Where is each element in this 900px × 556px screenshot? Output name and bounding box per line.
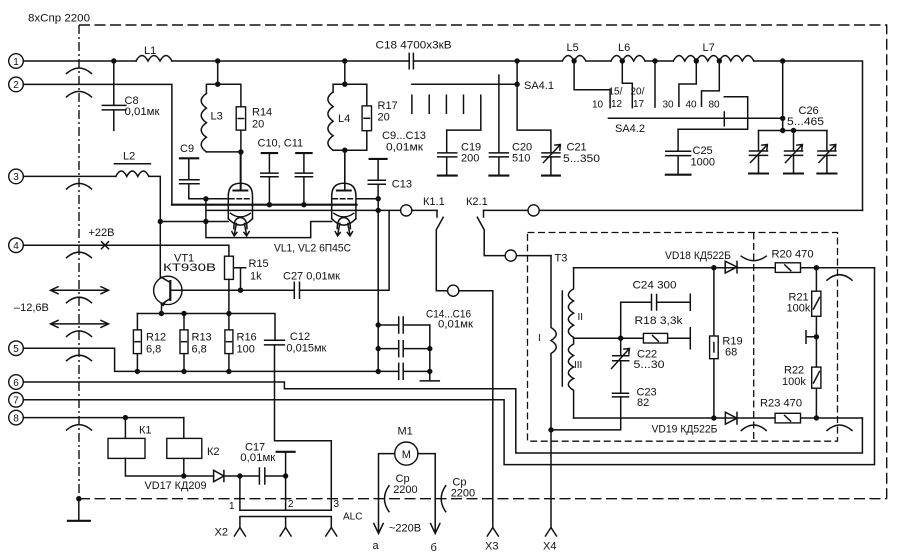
grid1 bus VL1 xyxy=(206,198,228,200)
svg-text:1k: 1k xyxy=(250,271,262,283)
svg-text:L2: L2 xyxy=(123,151,135,163)
node L4 bottom / VL2 anode xyxy=(342,148,347,153)
svg-text:6,8: 6,8 xyxy=(192,344,207,356)
inductor L5 xyxy=(562,42,586,61)
svg-text:10: 10 xyxy=(592,100,604,111)
node R19 bottom xyxy=(711,415,716,420)
terminal 1 xyxy=(9,54,24,69)
svg-text:0,015мк: 0,015мк xyxy=(286,343,326,355)
break mark on +22V wire xyxy=(102,242,109,249)
svg-text:КТ930В: КТ930В xyxy=(163,262,216,274)
feedthrough arc bottom rail at box edge xyxy=(827,425,852,431)
resistor R17 20 xyxy=(362,100,398,131)
transformer T3 secondary II xyxy=(568,268,583,339)
coax bushing on antenna line xyxy=(401,205,412,216)
wire L5 to L6 xyxy=(586,60,611,62)
capacitor C25 1000 xyxy=(666,129,715,174)
node L4 parallel top xyxy=(342,82,347,87)
inductor L4 xyxy=(328,92,333,150)
node R13 bottom xyxy=(181,369,186,374)
svg-text:R16: R16 xyxy=(237,332,257,344)
node K1 coil top xyxy=(123,415,128,420)
svg-text:100k: 100k xyxy=(782,376,806,388)
terminal 3 xyxy=(9,169,24,184)
feedthrough cap arc on heater line 1 xyxy=(67,297,92,303)
svg-text:VL1, VL2 6П45С: VL1, VL2 6П45С xyxy=(274,243,351,255)
svg-text:L7: L7 xyxy=(703,42,715,54)
switch SA4.2 line xyxy=(608,118,782,135)
chassis stub at divider xyxy=(806,331,816,344)
node C11 on screen bus xyxy=(301,202,306,207)
variable capacitor C26b xyxy=(784,131,803,174)
node X2 pin1 xyxy=(237,473,242,478)
variable capacitor C26c xyxy=(817,131,836,174)
svg-text:4: 4 xyxy=(13,241,19,252)
feedthrough cap arc on wire 8 xyxy=(67,425,92,431)
node SA4.2 at C26 line xyxy=(780,116,785,121)
svg-text:L6: L6 xyxy=(618,42,630,54)
svg-text:I: I xyxy=(538,333,541,344)
feedthrough arc bottom rail at partition xyxy=(741,425,766,431)
inductor L7 xyxy=(673,42,754,61)
svg-text:1000: 1000 xyxy=(691,157,715,169)
svg-text:20/: 20/ xyxy=(631,87,645,98)
node K2 bottom xyxy=(181,473,186,478)
resistor R23 470 xyxy=(760,398,802,423)
node C26 feed xyxy=(780,58,785,63)
return line C23 to X4 node xyxy=(551,397,621,430)
feedthrough cap arc on wire 5 xyxy=(67,355,92,361)
resistor R21 100k xyxy=(787,268,821,337)
connector X4 xyxy=(543,528,557,553)
detector top rail xyxy=(574,267,875,269)
svg-text:20: 20 xyxy=(378,112,390,124)
emitter bus xyxy=(137,314,275,341)
svg-text:R13: R13 xyxy=(192,332,212,344)
node R16 top xyxy=(226,311,231,316)
inductor L3 xyxy=(201,94,206,152)
node C8/top xyxy=(111,58,116,63)
node C15 left xyxy=(376,346,381,351)
wire top rail C18 to L5 xyxy=(413,60,562,62)
ALC sense line C12 to X2 pin3 xyxy=(275,345,332,510)
feedthrough cap arc on wire 1 xyxy=(67,68,92,74)
vacuum tube VL1 6P45S xyxy=(228,152,252,236)
node R16 bottom xyxy=(226,369,231,374)
transistor VT1 xyxy=(154,276,182,313)
svg-text:М: М xyxy=(402,449,411,461)
node R19 top xyxy=(711,265,716,270)
svg-text:68: 68 xyxy=(725,347,737,359)
svg-text:8: 8 xyxy=(13,413,19,424)
svg-text:3: 3 xyxy=(13,172,19,183)
node R20/R21 xyxy=(814,265,819,270)
svg-text:L4: L4 xyxy=(338,113,350,125)
node X2 pin2 xyxy=(283,473,288,478)
capacitor C11 xyxy=(295,153,312,205)
svg-text:12: 12 xyxy=(611,99,623,110)
svg-text:80: 80 xyxy=(709,100,721,111)
svg-text:0,01мк: 0,01мк xyxy=(386,142,423,154)
svg-text:VD18 КД522Б: VD18 КД522Б xyxy=(665,250,731,262)
terminal 4 xyxy=(9,238,24,253)
meter lead b xyxy=(418,454,435,525)
X4 line xyxy=(550,430,552,528)
svg-text:VD19 КД522Б: VD19 КД522Б xyxy=(652,424,718,436)
svg-text:R15: R15 xyxy=(249,258,269,270)
feedthrough cap arc on wire 3 xyxy=(67,183,92,189)
connector X3 xyxy=(485,528,498,553)
svg-text:5: 5 xyxy=(13,344,19,355)
svg-text:0,01мк: 0,01мк xyxy=(240,452,275,464)
svg-text:3: 3 xyxy=(334,499,340,510)
node SA4.1/C21 feed xyxy=(514,58,519,63)
wire K2.1 fixed from tank xyxy=(484,209,863,211)
svg-text:С25: С25 xyxy=(693,145,713,157)
T3 box partition xyxy=(753,233,755,442)
svg-text:С9: С9 xyxy=(180,143,194,155)
svg-text:Х3: Х3 xyxy=(485,541,498,553)
svg-text:7: 7 xyxy=(13,396,19,407)
resistor R19 68 xyxy=(710,268,743,418)
node divider mid xyxy=(814,334,819,339)
svg-text:5...30: 5...30 xyxy=(634,359,665,371)
svg-text:С10, С11: С10, С11 xyxy=(258,138,304,150)
relay coil return line xyxy=(125,458,213,476)
inductor L2 xyxy=(114,151,150,177)
inductor L6 xyxy=(611,42,645,61)
svg-text:III: III xyxy=(574,360,582,371)
wire terminal 2 to screen bus xyxy=(23,84,172,204)
tank L3 with R14: frame xyxy=(206,61,241,152)
detector bottom rail xyxy=(574,417,863,419)
variable capacitor C21 5...350 xyxy=(517,84,600,175)
feedthrough cap arc on heater line 2 xyxy=(67,331,92,337)
svg-text:С9...С13: С9...С13 xyxy=(382,130,426,142)
svg-text:17: 17 xyxy=(633,99,645,110)
capacitor C14 xyxy=(378,317,430,333)
capacitor C17 0,01mk xyxy=(240,442,286,485)
switch contact bar 3 xyxy=(445,95,447,113)
node L3 bottom / VL1 anode xyxy=(238,149,243,154)
resistor R14 20 xyxy=(236,107,272,131)
svg-text:0,01мк: 0,01мк xyxy=(438,319,473,331)
svg-text:С27 0,01мк: С27 0,01мк xyxy=(283,271,340,283)
svg-text:L5: L5 xyxy=(567,42,579,54)
screen grid bus xyxy=(172,204,357,206)
wire 4 +22V xyxy=(23,245,229,256)
chassis bar above X2 pin2 xyxy=(285,452,287,476)
relay contact K1.1 fixed xyxy=(436,210,438,217)
svg-text:510: 510 xyxy=(512,153,530,165)
arrow to b xyxy=(431,524,440,534)
capacitor C16 xyxy=(399,363,430,379)
node cathode/collector xyxy=(158,219,163,224)
wire 8 to relay coils xyxy=(23,417,184,419)
beam plate bus xyxy=(206,209,378,211)
svg-text:2200: 2200 xyxy=(451,488,475,500)
arrow to a xyxy=(374,524,383,534)
tap 20/17 of L6 xyxy=(631,58,658,110)
capacitor C18 4700x3kV xyxy=(376,40,452,69)
svg-text:К1: К1 xyxy=(139,425,152,437)
tap 10 of L5 xyxy=(571,58,610,110)
svg-text:Х4: Х4 xyxy=(543,541,556,553)
meter M1 xyxy=(395,426,418,466)
node beam bus right xyxy=(376,208,381,213)
svg-text:Х2: Х2 xyxy=(215,527,228,539)
feedthrough arc top rail at partition xyxy=(741,256,766,261)
node grid1 VL1 xyxy=(203,196,208,201)
grid1 bus VL2 xyxy=(357,198,379,200)
svg-text:8хСпр 2200: 8хСпр 2200 xyxy=(28,13,90,25)
feedthrough cap Cp 2200 on lead b xyxy=(441,477,475,512)
wire net of terminal 1 (top rail) xyxy=(23,60,136,62)
grid link VL1 xyxy=(205,199,207,222)
capacitor C19 200 xyxy=(438,130,481,176)
svg-text:1: 1 xyxy=(229,501,235,512)
svg-text:К2.1: К2.1 xyxy=(466,196,488,208)
terminal 7 xyxy=(9,393,24,408)
svg-text:Т3: Т3 xyxy=(555,253,568,265)
wiper link to C25 xyxy=(678,97,748,130)
svg-text:R17: R17 xyxy=(378,100,398,112)
relay contact K1.1 arm xyxy=(436,217,493,290)
variable capacitor C22 5...30 xyxy=(612,338,665,393)
tap line with R18 xyxy=(574,328,691,349)
switch contact bar 4 xyxy=(463,95,465,113)
node R13 top xyxy=(181,311,186,316)
node C16 right xyxy=(427,369,432,374)
inductor L1 xyxy=(136,45,172,61)
svg-text:30: 30 xyxy=(663,100,675,111)
capacitor C13 xyxy=(368,159,412,199)
resistor R22 100k xyxy=(782,337,821,418)
svg-text:200: 200 xyxy=(461,153,479,165)
wire 6 to bottom rail return xyxy=(23,382,862,453)
svg-text:40: 40 xyxy=(686,100,698,111)
node R15 tap on base line xyxy=(238,288,243,293)
wire 5 / emitter resistor bus xyxy=(23,348,398,371)
heater line 2 with double arrows xyxy=(51,320,109,327)
R15 lower lead to R16 xyxy=(228,279,230,330)
svg-text:ALC: ALC xyxy=(343,512,362,523)
svg-text:С13: С13 xyxy=(392,179,412,191)
switch contact bar 2 xyxy=(428,95,430,113)
grid net vertical to C14-C16 xyxy=(377,199,379,372)
node C15 right xyxy=(427,346,432,351)
capacitor C9 xyxy=(180,143,206,199)
tap 15/12 of L6 xyxy=(609,58,633,110)
node emitter xyxy=(159,311,164,316)
svg-text:6,8: 6,8 xyxy=(146,344,161,356)
heater line 1 with double arrows xyxy=(51,287,109,294)
svg-text:R12: R12 xyxy=(146,332,166,344)
wire L4 node to VL2 anode xyxy=(344,150,346,190)
variable capacitor C26a xyxy=(749,131,768,174)
connector X2 pin ends xyxy=(234,528,245,537)
C26 feed line xyxy=(759,61,827,131)
node C26 bus xyxy=(780,128,785,133)
svg-text:С21: С21 xyxy=(567,142,587,154)
svg-text:+22В: +22В xyxy=(89,227,115,239)
capacitor C24 300 xyxy=(621,280,691,339)
coax bushing on K2.1 output xyxy=(505,250,516,261)
capacitor C8 0,01mk xyxy=(102,61,159,130)
feedthrough arc top rail at box edge xyxy=(827,275,852,281)
svg-text:6: 6 xyxy=(13,378,19,389)
node L3 parallel top xyxy=(215,82,220,87)
svg-text:R20 470: R20 470 xyxy=(772,249,814,261)
node cathode VL1 xyxy=(203,219,208,224)
SA4.2 wiper bar xyxy=(723,112,725,126)
wire L6 to L7 xyxy=(645,60,673,62)
wire L3 node to VL1 anode xyxy=(240,152,242,191)
node grid rail on bus xyxy=(376,369,381,374)
relay coil K1 xyxy=(108,418,152,459)
node C10 on screen bus xyxy=(267,202,272,207)
transformer T3 core xyxy=(561,291,563,386)
capacitor C27 0,01mk xyxy=(283,271,340,299)
svg-text:~220В: ~220В xyxy=(389,523,421,535)
ground symbol at shield bottom xyxy=(68,496,90,521)
shield enclosure dashed border xyxy=(79,25,887,499)
diode VD18 KD522B xyxy=(665,250,737,273)
diode VD19 KD522B xyxy=(652,412,738,435)
X3 receiver line xyxy=(492,291,494,528)
wire L7 to corner xyxy=(754,61,863,210)
resistor R13 6,8 xyxy=(180,314,212,372)
node R22 bottom xyxy=(814,415,819,420)
svg-text:R22: R22 xyxy=(784,365,804,377)
capacitor C10 xyxy=(261,153,278,205)
terminal 5 xyxy=(9,341,24,356)
svg-text:L1: L1 xyxy=(144,45,156,57)
switch SA4.1 line xyxy=(412,61,517,84)
coax bushing on tank line xyxy=(528,205,539,216)
svg-text:L3: L3 xyxy=(211,111,223,123)
resistor R12 6,8 xyxy=(133,314,166,372)
svg-text:R23 470: R23 470 xyxy=(760,398,802,410)
node C14 left xyxy=(376,322,381,327)
node L4 top feed xyxy=(342,58,347,63)
resistor R15 1k with tap xyxy=(225,256,269,290)
node SA4.1 right xyxy=(514,82,519,87)
svg-text:R18 3,3k: R18 3,3k xyxy=(635,315,684,327)
coax bushing on K1.1 output xyxy=(448,285,459,296)
svg-text:SA4.2: SA4.2 xyxy=(615,123,645,135)
svg-text:VD17 КД209: VD17 КД209 xyxy=(145,480,207,492)
cathode jumper to VL2 xyxy=(206,222,332,238)
svg-text:К1.1: К1.1 xyxy=(423,196,445,208)
terminal 8 xyxy=(9,410,24,425)
transformer T3 primary I xyxy=(538,256,556,430)
feedthrough cap Cp 2200 on lead a xyxy=(385,473,418,512)
node grid1 VL2 xyxy=(376,196,381,201)
svg-text:К2: К2 xyxy=(207,446,220,458)
svg-text:С24 300: С24 300 xyxy=(633,280,677,292)
capacitor C12 0,015mk xyxy=(265,331,327,355)
svg-text:2200: 2200 xyxy=(393,484,417,496)
feedthrough cap arc on wire 2 xyxy=(67,91,92,97)
svg-text:1: 1 xyxy=(13,57,19,68)
svg-text:II: II xyxy=(578,312,584,323)
node C26 cap2 xyxy=(791,128,796,133)
node L3 top feed xyxy=(215,58,220,63)
svg-text:82: 82 xyxy=(637,397,649,409)
resistor R20 470 xyxy=(772,249,814,273)
vacuum tube VL2 6P45S xyxy=(332,150,356,236)
svg-text:5...350: 5...350 xyxy=(563,153,600,165)
svg-text:а: а xyxy=(373,540,380,552)
tap 40 of L7 xyxy=(686,58,723,110)
switch contact bar 5 to C19 xyxy=(447,95,481,130)
capacitor C23 82 xyxy=(613,387,657,410)
wire terminal 3 to L2 xyxy=(23,175,116,177)
feedthrough cap arc on wire 4 xyxy=(67,252,92,258)
cathode line VL1 xyxy=(160,221,228,223)
svg-text:М1: М1 xyxy=(398,426,413,438)
switch contact bar 1 xyxy=(411,95,413,113)
resistor R18 3,3k xyxy=(635,315,684,343)
svg-text:С12: С12 xyxy=(290,331,310,343)
T3 measuring box dashed border xyxy=(528,233,838,442)
svg-text:–12,6В: –12,6В xyxy=(14,302,49,314)
tap 30 of L7 xyxy=(663,58,700,110)
tank L4 with R17: frame xyxy=(333,61,367,150)
svg-text:б: б xyxy=(431,542,437,554)
svg-text:5...465: 5...465 xyxy=(787,116,824,128)
svg-text:0,01мк: 0,01мк xyxy=(125,106,160,118)
svg-text:100k: 100k xyxy=(787,303,811,315)
wire 7 to divider output xyxy=(23,268,874,465)
node R12 bottom xyxy=(135,369,140,374)
diode VD17 KD209 xyxy=(145,470,240,492)
relay coil K2 xyxy=(167,418,220,459)
C14-C16 right rail to chassis xyxy=(420,325,439,381)
node T3 primary bottom / X4 xyxy=(548,427,553,432)
svg-text:2: 2 xyxy=(288,499,294,510)
base line VT1 to C27 xyxy=(170,289,294,291)
connector X2 bracket xyxy=(240,510,331,527)
svg-text:С18 4700х3кВ: С18 4700х3кВ xyxy=(376,40,452,52)
wire top rail L1 to C18 xyxy=(172,60,409,62)
relay contact K2.1 arm xyxy=(477,217,551,255)
antenna relay feed line xyxy=(300,210,438,290)
svg-text:100: 100 xyxy=(237,344,255,356)
meter lead a xyxy=(379,454,395,525)
capacitor C20 510 on switch wiper xyxy=(489,75,532,176)
node tap/C22 xyxy=(618,336,623,341)
capacitor C15 xyxy=(378,341,430,357)
svg-text:SA4.1: SA4.1 xyxy=(524,80,554,92)
relay contact K2.1 fixed xyxy=(483,210,485,217)
svg-text:15/: 15/ xyxy=(609,87,623,98)
terminal 6 xyxy=(9,375,24,390)
resistor R16 100 xyxy=(225,330,257,372)
terminal 2 xyxy=(9,77,24,92)
svg-text:2: 2 xyxy=(13,80,19,91)
transformer T3 secondary III xyxy=(568,338,582,418)
wire L2 to VT1 collector xyxy=(149,176,160,277)
svg-text:R14: R14 xyxy=(252,107,272,119)
connector X2 pins xyxy=(240,476,286,510)
svg-text:20: 20 xyxy=(252,119,264,131)
